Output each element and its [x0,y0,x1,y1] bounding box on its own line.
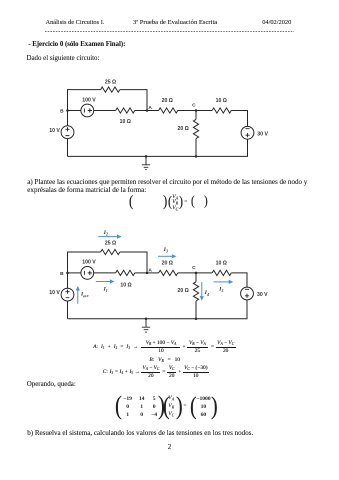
header center [133,19,217,27]
wire resistor to bottom rail [195,139,197,157]
resistor 25ohm top [101,249,120,254]
source U 100V [81,104,94,117]
svg-text:B: B [60,271,64,277]
wire C down to resistor [195,111,197,120]
svg-text:I4: I4 [204,290,209,297]
resistor 10ohm middle [116,108,135,113]
exercise title [28,41,125,49]
svg-text:Ig10: Ig10 [80,291,89,298]
current arrow I3 [158,254,177,258]
wire B down to source 10V [67,273,69,288]
wire resistor to C [178,110,196,112]
wire C to resistor 10ohm right [196,110,212,112]
svg-text:100 V: 100 V [82,260,96,266]
wire resistor to A [135,110,147,112]
source 10V [61,126,74,139]
equation node A [93,341,235,354]
svg-text:B: B [60,108,64,114]
junction dot ground [145,155,148,158]
node A [146,109,149,112]
resistor 20ohm A-C [159,270,178,275]
svg-text:10 V: 10 V [49,128,60,134]
resistor 20ohm vertical [193,119,198,138]
svg-text:20 Ω: 20 Ω [178,288,189,294]
svg-text:10 Ω: 10 Ω [216,260,227,266]
svg-text:20 Ω: 20 Ω [162,260,173,266]
resistor 20ohm vertical [193,282,198,301]
wire source to resistor 10ohm [94,110,116,112]
wire resistor to right corner down to source [231,273,247,287]
node B [66,272,69,275]
svg-text:10 Ω: 10 Ω [120,282,131,288]
wire source to bottom rail [68,300,248,319]
current arrow I4 [200,282,204,301]
svg-text:I3: I3 [163,247,168,254]
svg-text:I5: I5 [218,286,223,293]
wire resistor to C [178,272,196,274]
wire B to source 100V [68,110,81,112]
svg-text:20 Ω: 20 Ω [162,98,173,104]
resistor 10ohm right [212,108,231,113]
CIRCUIT 1 [0,0,339,180]
intro line [27,55,100,63]
source 30V [241,287,254,300]
resistor 20ohm A-C [159,108,178,113]
ground [142,319,150,332]
node C [195,272,198,275]
svg-text:C: C [192,103,196,109]
wire resistor to A [135,272,147,274]
junction dot C bottom [195,155,198,158]
current arrow Ig10 [76,286,80,304]
CIRCUIT 2 [0,222,339,340]
wire source to bottom rail [68,139,248,156]
wire source to bottom rail [67,139,69,157]
svg-text:C: C [192,265,196,271]
matrix equation 2 [115,393,122,419]
svg-text:100 V: 100 V [82,98,96,104]
current arrow I1 [96,279,115,283]
ground [142,156,150,169]
header left [46,19,105,27]
node C [195,109,198,112]
source 10V [61,288,74,301]
svg-text:20 Ω: 20 Ω [178,126,189,132]
svg-text:25 Ω: 25 Ω [105,241,116,247]
wire A to resistor 20ohm [147,272,159,274]
svg-text:I1: I1 [103,286,108,293]
svg-text:10 Ω: 10 Ω [216,98,227,104]
wire top branch B to A [68,90,148,111]
wire B to source 100V [68,272,81,274]
wire B down to source 10V [67,111,69,126]
wire A to resistor 20ohm [147,110,159,112]
svg-text:I2: I2 [103,230,108,237]
svg-text:10 Ω: 10 Ω [120,119,131,125]
node B [66,109,69,112]
operando [27,381,76,389]
paragraph b) [27,430,253,438]
header right [262,19,291,27]
wire top branch B to A [68,252,148,273]
paragraph a) [27,179,307,187]
matrix equation 1 [129,194,133,210]
header dashed rule [0,0,339,40]
resistor 25ohm top [101,87,120,92]
wire source to bottom rail [67,301,69,319]
node A [146,272,149,275]
wire resistor to right corner down to source [231,111,247,127]
equation node C [103,366,209,379]
page number [168,444,171,452]
svg-text:10 V: 10 V [49,290,60,296]
svg-text:30 V: 30 V [257,292,268,298]
wire C down to resistor [195,273,197,282]
junction dot ground [145,318,148,321]
wire C to resistor 10ohm right [196,272,212,274]
svg-text:25 Ω: 25 Ω [105,80,116,86]
junction dot C bottom [195,318,198,321]
current arrow I2 [98,235,121,239]
equation node B [149,358,180,363]
current arrow I5 [214,280,234,284]
resistor 10ohm right [212,270,231,275]
source U 100V [81,267,94,280]
svg-text:30 V: 30 V [257,131,268,137]
resistor 10ohm middle [116,270,135,275]
wire source to resistor 10ohm [94,272,116,274]
wire resistor to bottom rail [195,301,197,319]
source 30V [241,126,254,139]
